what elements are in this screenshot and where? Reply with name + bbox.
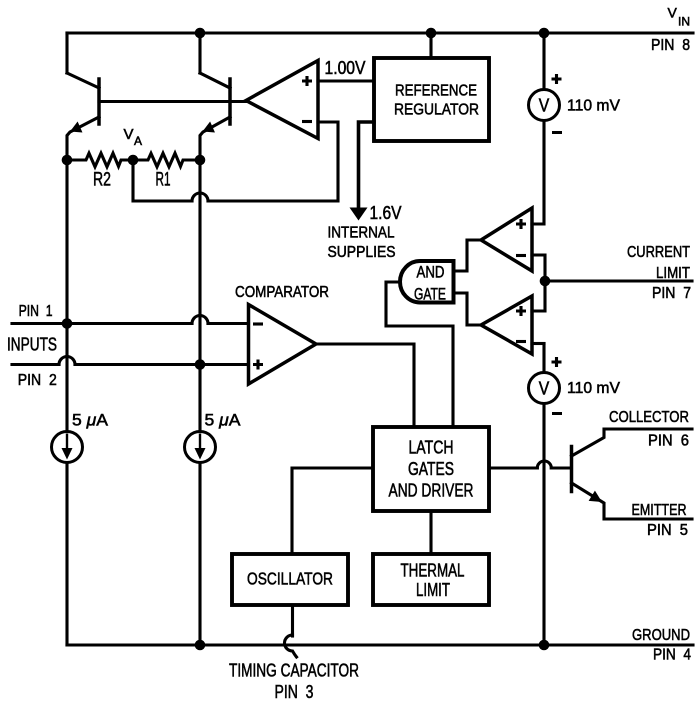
svg-text:IN: IN xyxy=(678,15,690,29)
svg-text:PIN 2: PIN 2 xyxy=(18,372,57,389)
svg-text:SUPPLIES: SUPPLIES xyxy=(328,244,396,261)
svg-text:AND: AND xyxy=(417,263,445,282)
svg-text:V: V xyxy=(668,5,678,21)
svg-text:PIN 5: PIN 5 xyxy=(647,522,688,539)
svg-text:GATE: GATE xyxy=(414,285,446,304)
svg-text:REFERENCE: REFERENCE xyxy=(395,83,477,100)
svg-text:PIN 3: PIN 3 xyxy=(275,682,314,702)
svg-text:5 μA: 5 μA xyxy=(205,411,242,430)
svg-text:1.00V: 1.00V xyxy=(325,58,366,78)
svg-text:110 mV: 110 mV xyxy=(567,380,620,397)
svg-text:A: A xyxy=(134,134,142,148)
svg-text:LATCH: LATCH xyxy=(409,438,454,458)
svg-text:V: V xyxy=(124,126,134,143)
svg-text:V: V xyxy=(539,96,550,116)
svg-text:5 μA: 5 μA xyxy=(72,411,109,430)
svg-text:110 mV: 110 mV xyxy=(567,98,620,115)
svg-text:R1: R1 xyxy=(156,170,171,191)
svg-text:CURRENT: CURRENT xyxy=(627,244,690,261)
svg-text:PIN 4: PIN 4 xyxy=(653,647,691,664)
svg-text:GATES: GATES xyxy=(408,459,454,479)
svg-text:LIMIT: LIMIT xyxy=(416,580,450,600)
svg-text:1.6V: 1.6V xyxy=(370,203,402,223)
svg-text:OSCILLATOR: OSCILLATOR xyxy=(247,569,333,589)
svg-text:PIN 7: PIN 7 xyxy=(652,285,691,302)
svg-text:COLLECTOR: COLLECTOR xyxy=(609,409,689,426)
svg-text:R2: R2 xyxy=(93,170,111,191)
svg-text:AND DRIVER: AND DRIVER xyxy=(389,481,474,501)
svg-text:THERMAL: THERMAL xyxy=(401,561,465,581)
svg-text:PIN 1: PIN 1 xyxy=(19,303,53,320)
svg-text:PIN 8: PIN 8 xyxy=(651,37,690,54)
svg-text:INPUTS: INPUTS xyxy=(7,335,57,355)
svg-text:GROUND: GROUND xyxy=(632,627,690,644)
svg-text:EMITTER: EMITTER xyxy=(632,502,687,519)
svg-text:PIN 6: PIN 6 xyxy=(648,433,689,450)
svg-text:TIMING CAPACITOR: TIMING CAPACITOR xyxy=(229,661,359,681)
svg-text:INTERNAL: INTERNAL xyxy=(328,225,395,242)
svg-text:COMPARATOR: COMPARATOR xyxy=(235,284,329,301)
svg-text:V: V xyxy=(539,379,550,399)
svg-text:LIMIT: LIMIT xyxy=(656,265,690,282)
svg-text:REGULATOR: REGULATOR xyxy=(394,102,479,119)
